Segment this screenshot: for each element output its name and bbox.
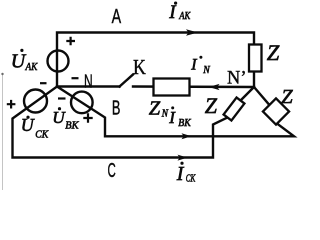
svg-text:Z: Z bbox=[149, 98, 161, 120]
label I_BK bbox=[168, 106, 192, 128]
switch K blade bbox=[120, 75, 134, 87]
wire phase A: star point up, top bus, right drop to N' bbox=[57, 33, 254, 88]
svg-text:N’: N’ bbox=[227, 67, 247, 88]
label I_CK bbox=[176, 162, 196, 185]
svg-text:I: I bbox=[190, 57, 197, 74]
svg-text:AK: AK bbox=[178, 11, 191, 22]
label U_CK bbox=[21, 115, 49, 140]
svg-text:AK: AK bbox=[25, 62, 39, 73]
label U_AK bbox=[11, 49, 38, 73]
svg-text:N: N bbox=[161, 109, 169, 120]
impedance Z_N (neutral box) bbox=[154, 79, 190, 96]
impedance Z phase B (tilted square) bbox=[263, 98, 289, 124]
svg-text:CK: CK bbox=[35, 130, 49, 141]
svg-text:C: C bbox=[108, 160, 116, 182]
plus sign of U_CK bbox=[7, 100, 16, 109]
svg-text:U: U bbox=[11, 50, 27, 72]
source U_AK (circle) bbox=[48, 51, 69, 72]
arrow current I_CK bbox=[178, 155, 188, 161]
impedance Z phase A (vertical rectangle) bbox=[249, 45, 262, 72]
label I_AK bbox=[168, 1, 191, 22]
svg-text:Z: Z bbox=[267, 40, 280, 65]
wire phase B: star point diagonal through source, drop, bottom run, rise into Z bbox=[57, 87, 294, 137]
label Z_N bbox=[149, 98, 169, 120]
svg-text:N: N bbox=[202, 65, 210, 76]
svg-text:N: N bbox=[84, 72, 93, 92]
svg-text:U: U bbox=[52, 108, 66, 127]
svg-text:CK: CK bbox=[186, 174, 196, 185]
source U_BK (circle) bbox=[71, 92, 93, 114]
svg-text:I: I bbox=[176, 163, 185, 185]
svg-text:BK: BK bbox=[65, 121, 79, 132]
wire phase C: star point diagonal through source, left drop, bottom run, riser, stub into Z bbox=[13, 87, 228, 158]
arrow current I_BK bbox=[182, 133, 192, 139]
minus sign of U_AK bbox=[40, 82, 47, 84]
label I_N bbox=[190, 56, 211, 76]
svg-text:A: A bbox=[112, 6, 122, 28]
wire neutral: switch contact through Z_N box to node N' bbox=[133, 85, 254, 88]
minus sign of U_BK bbox=[58, 97, 66, 99]
plus sign of U_BK bbox=[83, 113, 92, 122]
arrow current I_AK bbox=[186, 29, 198, 36]
wire phase B: stub from N' into Z diamond bbox=[254, 87, 269, 105]
wire neutral: star point to switch hinge bbox=[57, 85, 120, 87]
svg-text:BK: BK bbox=[178, 118, 192, 129]
svg-text:B: B bbox=[112, 97, 121, 119]
arrow current I_N (points left) bbox=[209, 84, 220, 90]
wire phase C: stub from N' into tilted Z bbox=[241, 87, 255, 101]
svg-text:K: K bbox=[133, 55, 146, 79]
scan artifact line at left edge bbox=[2, 73, 4, 190]
impedance Z phase C (tilted rectangle) bbox=[224, 97, 245, 120]
svg-text:Z: Z bbox=[281, 86, 293, 108]
label U_BK bbox=[52, 107, 79, 131]
plus sign of U_AK bbox=[66, 37, 75, 46]
minus sign before N label bbox=[72, 77, 79, 79]
source U_CK (circle) bbox=[24, 90, 47, 113]
svg-text:Z: Z bbox=[205, 93, 218, 118]
